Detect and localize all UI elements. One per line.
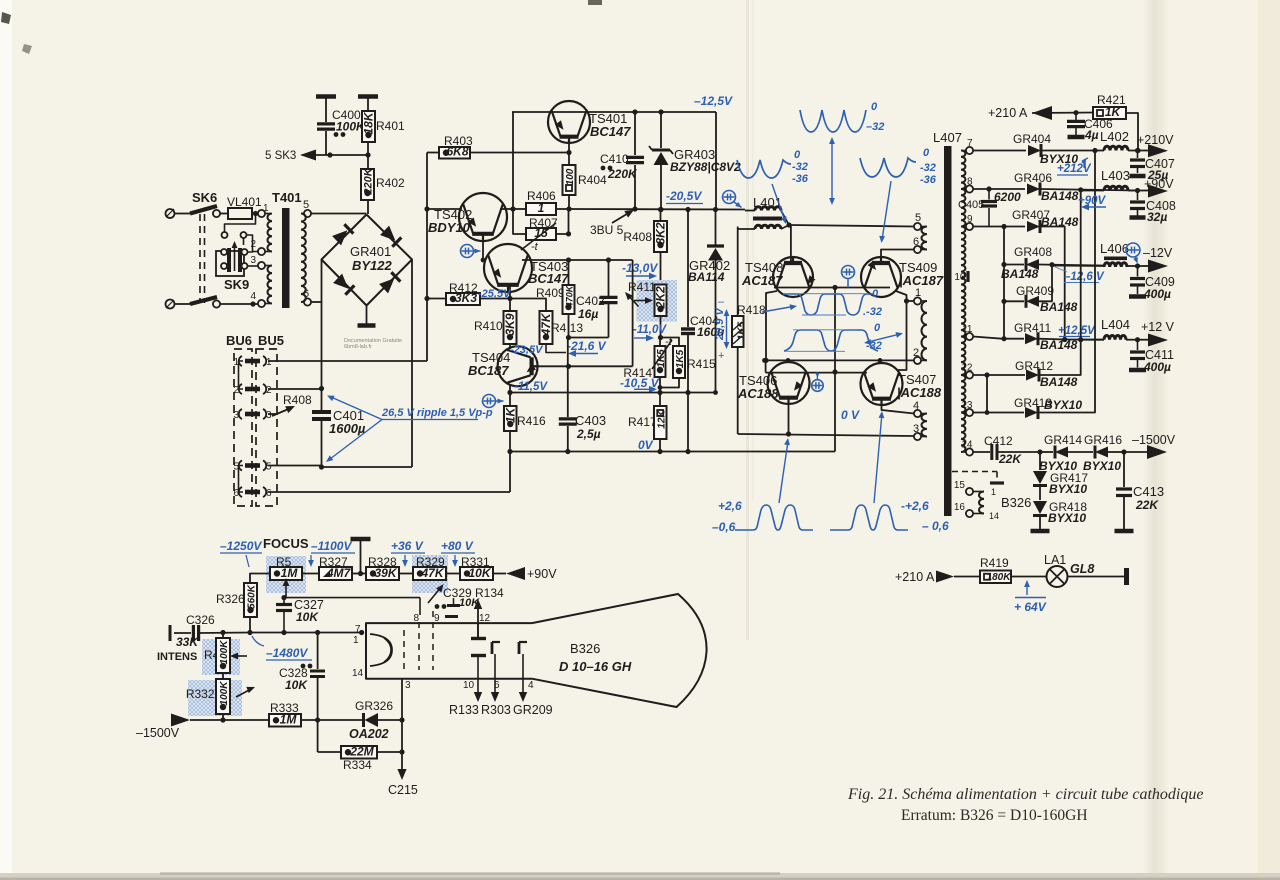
svg-text:3K9: 3K9 [503, 313, 517, 335]
terminal circle lower [166, 300, 191, 309]
svg-text:B326: B326 [570, 641, 600, 656]
capacitor C408 [1130, 191, 1176, 225]
L407 tap 16 [954, 502, 973, 517]
resistor R414 [623, 336, 672, 393]
switch SK6 upper blade [190, 190, 217, 214]
label L407 [933, 130, 962, 145]
winding 5-6 [921, 227, 927, 250]
svg-text:–: – [718, 296, 725, 308]
svg-text:-13,0V: -13,0V [622, 261, 658, 275]
svg-text:–0,6: –0,6 [712, 520, 736, 534]
svg-text:– 0,6: – 0,6 [922, 519, 949, 533]
svg-text:+90V: +90V [527, 567, 557, 581]
svg-text:BC147: BC147 [590, 124, 631, 139]
corner scan marks [1, 0, 602, 54]
svg-text:15: 15 [954, 480, 966, 491]
svg-text:C413: C413 [1133, 484, 1164, 499]
L407 tap 14 [961, 440, 973, 456]
svg-text:3: 3 [233, 410, 239, 421]
svg-text:R415: R415 [687, 357, 716, 371]
label FOCUS [263, 536, 309, 551]
T401 secondary winding [301, 214, 306, 303]
ground top middle [351, 539, 371, 576]
capacitor C403 [559, 338, 606, 452]
node VL401 right [253, 211, 258, 216]
blue -13,0V [622, 261, 658, 279]
base line TS406 TS407 [762, 358, 906, 373]
relay upper contacts [222, 214, 256, 253]
output -12V [1135, 246, 1173, 273]
node R411 bottom [658, 335, 663, 340]
wire TS404 collector [509, 344, 511, 349]
label GR401 [350, 244, 393, 273]
T401 pin4 [250, 291, 265, 307]
inductor L402 [1095, 129, 1138, 151]
intens bus [250, 632, 362, 634]
potentiometer R5 [270, 555, 302, 592]
svg-text:5 SK3: 5 SK3 [265, 150, 296, 162]
svg-text:–1100V: –1100V [311, 539, 352, 553]
inductor L401 [738, 195, 789, 229]
diode GR404 [1013, 132, 1095, 166]
capacitor C405 [958, 189, 1021, 227]
wire R334 branch left [317, 720, 319, 752]
svg-text:BZY88|C8V2: BZY88|C8V2 [670, 160, 741, 174]
wire tap5 line [786, 222, 914, 227]
transistor TS404 [498, 346, 538, 386]
svg-text:+ 64V: + 64V [1014, 600, 1047, 614]
label TS404 [468, 350, 510, 378]
diode GR411 [1004, 321, 1104, 352]
transformer L407 core [944, 146, 952, 516]
svg-text:BA148: BA148 [1041, 189, 1079, 203]
svg-text:GR406: GR406 [1014, 171, 1052, 185]
svg-text:400µ: 400µ [1143, 287, 1171, 301]
svg-text:INTENS: INTENS [157, 651, 197, 663]
T401 primary winding lower [265, 266, 272, 304]
svg-text:R334: R334 [343, 758, 372, 772]
svg-text:1: 1 [915, 287, 921, 299]
node R333 right [315, 717, 320, 722]
transistor TS406 [768, 362, 810, 404]
wire to R333 [223, 719, 270, 721]
svg-text:3BU 5: 3BU 5 [590, 223, 624, 237]
svg-text:32µ: 32µ [1147, 210, 1167, 224]
svg-text:6: 6 [913, 236, 919, 248]
svg-text:BYX10: BYX10 [1044, 398, 1082, 412]
bridge GR401 outline [322, 215, 413, 306]
blue -20,5V [666, 189, 703, 204]
svg-text:BU6: BU6 [226, 333, 252, 348]
svg-text:1: 1 [991, 487, 996, 497]
svg-text:C412: C412 [984, 434, 1013, 448]
CRT pin9 label [434, 613, 440, 624]
zener GR403 [649, 112, 673, 212]
potentiometer R329 [413, 555, 460, 580]
svg-text:GR416: GR416 [1084, 433, 1122, 447]
diode GR412 [1015, 191, 1081, 390]
svg-text:0: 0 [871, 101, 878, 113]
svg-text:0 V: 0 V [841, 408, 860, 422]
blue -1250V [220, 539, 262, 567]
svg-text:|AC188: |AC188 [897, 385, 942, 400]
wire TS404 emitter [507, 384, 512, 395]
CRT electrode 10 [463, 656, 486, 692]
capacitor C409 [1129, 266, 1175, 301]
meas point TS408-409 [842, 266, 855, 288]
bus 0V [507, 449, 835, 454]
svg-text:+2,6: +2,6 [718, 499, 742, 513]
switch SK6 lower blade [190, 297, 217, 304]
blue +12,5V [1058, 325, 1096, 337]
svg-text:R404: R404 [578, 173, 607, 187]
blue -11,0V [633, 324, 667, 341]
blue arrow left crest [779, 438, 790, 503]
blue crest wave right [830, 499, 929, 530]
svg-text:-32: -32 [792, 161, 808, 173]
node intens bus [220, 630, 364, 635]
svg-text:3: 3 [250, 255, 256, 266]
doc watermark [344, 338, 402, 350]
CRT pin7 pin1 labels [352, 624, 364, 679]
blue +36V [391, 539, 425, 567]
svg-text:GR404: GR404 [1013, 132, 1051, 146]
wire pin4 column [252, 252, 255, 304]
heater winding B326 [973, 487, 1031, 521]
svg-text:R409: R409 [536, 286, 565, 300]
wire C401 to pin5 net [322, 466, 413, 468]
resistor R402 [361, 155, 405, 214]
svg-text:–1500V: –1500V [136, 726, 180, 740]
transformer T401 core [282, 208, 290, 308]
svg-text:100K: 100K [219, 681, 230, 706]
svg-text:2: 2 [913, 347, 919, 359]
resistor R417 [628, 390, 667, 452]
wire base column up [632, 260, 634, 366]
svg-text:+80 V: +80 V [441, 539, 474, 553]
hatch R5 [266, 556, 306, 593]
svg-text:16: 16 [954, 502, 966, 513]
wire BU5 pin5 [268, 466, 322, 468]
svg-text:–1500V: –1500V [1132, 433, 1176, 447]
blue double arrow W1 [829, 137, 835, 205]
svg-text:1K5: 1K5 [737, 321, 748, 340]
wire tap5 to bridge [311, 213, 367, 215]
winding 3-4 [921, 414, 927, 437]
svg-text:2: 2 [250, 239, 256, 250]
blue 20,9V annotation [714, 296, 729, 362]
CRT grid dashed 2 [418, 622, 420, 670]
svg-text:GR408: GR408 [1014, 245, 1052, 259]
svg-text:22K: 22K [1135, 498, 1159, 512]
capacitor C407 [1130, 151, 1175, 183]
BU6 link pins 1-2 [239, 361, 244, 389]
svg-text:1: 1 [263, 203, 269, 214]
diode GR407 [1012, 208, 1079, 340]
svg-text:9: 9 [434, 613, 440, 624]
svg-text:FOCUS: FOCUS [263, 536, 309, 551]
label TS403 [528, 259, 569, 286]
resistor R413 [510, 299, 583, 353]
capacitor C410 [600, 112, 644, 212]
blue -10,5V [620, 376, 660, 393]
line B collectors [763, 358, 906, 363]
svg-text:4: 4 [528, 680, 534, 691]
wire tap7 line [973, 150, 1026, 152]
vertical TS401 base column [512, 112, 514, 209]
node R404 bus [566, 206, 571, 211]
svg-text:10K: 10K [285, 678, 308, 692]
svg-text:SK6: SK6 [192, 190, 217, 205]
output +12V [1135, 320, 1175, 347]
blue 0V left [638, 438, 654, 452]
transistor TS403 [484, 244, 532, 292]
arrow +210A top [988, 106, 1095, 120]
connector BU5 box [256, 349, 277, 506]
blue wave B [784, 322, 882, 352]
resistor R326 [216, 583, 258, 633]
label INTENS [157, 651, 197, 663]
svg-text:8: 8 [413, 613, 419, 624]
blue -21,6V [567, 339, 607, 357]
svg-text:VL401: VL401 [227, 195, 262, 209]
blue waveform W2 [737, 149, 809, 185]
svg-text:.-32: .-32 [863, 306, 882, 318]
svg-text:OA202: OA202 [349, 727, 389, 741]
svg-text:8: 8 [967, 177, 973, 188]
svg-text:R402: R402 [376, 176, 405, 190]
blue +90V note [1078, 195, 1107, 210]
hatch R411 [637, 280, 678, 322]
svg-text:+210 A: +210 A [895, 570, 935, 584]
arrow to R408 label [272, 393, 312, 416]
T401 pin5 [303, 199, 311, 217]
arrow C215 [388, 769, 418, 797]
capacitor C412 [984, 434, 1043, 466]
svg-text:10K: 10K [296, 610, 319, 624]
node R332 bottom [220, 717, 225, 722]
svg-text:R326: R326 [216, 592, 245, 606]
relay SK9 box [216, 251, 249, 292]
blue -0,6 left [922, 519, 949, 533]
transistor TS401 [548, 101, 590, 143]
svg-text:12: 12 [479, 613, 491, 624]
svg-text:4µ: 4µ [1084, 128, 1099, 142]
svg-text:GR411: GR411 [1014, 321, 1051, 335]
bridge diode top-left [332, 224, 353, 245]
arrow 3BU5 [590, 210, 634, 237]
svg-text:-10,5 V: -10,5 V [620, 376, 660, 390]
svg-text:R303: R303 [481, 703, 511, 717]
CRT neck outline [366, 623, 532, 679]
bridge diode top-right [380, 226, 401, 247]
svg-text:BY122: BY122 [352, 258, 393, 273]
arrow +210A bottom [895, 570, 980, 584]
fuse VL401 [220, 195, 262, 219]
svg-text:7: 7 [967, 138, 973, 149]
CRT electrode 6 [492, 642, 500, 691]
L407 tap 8 [961, 177, 973, 193]
T407 tap5 circle [914, 212, 921, 230]
svg-text:BYX10: BYX10 [1083, 459, 1121, 473]
wire base column to 0V [832, 288, 837, 452]
resistor R327 [302, 555, 366, 580]
svg-text:C410: C410 [600, 152, 629, 166]
svg-text:0V: 0V [638, 438, 654, 452]
transistor TS407 [861, 363, 903, 405]
resistor R411 [628, 280, 668, 338]
diode GR326 [318, 699, 402, 741]
svg-text:BA148: BA148 [1001, 267, 1039, 281]
contact circle lower [213, 300, 220, 307]
CRT electrode 12 [471, 613, 491, 639]
svg-text:Fig. 21. Schéma alimentation: Fig. 21. Schéma alimentation + circuit t… [847, 786, 1203, 803]
wire +90 column [1080, 191, 1082, 340]
svg-text:GR414: GR414 [1044, 433, 1082, 447]
svg-text:470K: 470K [565, 284, 575, 308]
blue arrow W3 down [879, 181, 891, 243]
diode GR418 [1031, 486, 1088, 531]
paper crease [746, 0, 754, 640]
capacitor C404 [681, 210, 725, 452]
output +210V [1135, 133, 1174, 157]
wire TS407 emitter to tap4 [882, 405, 915, 414]
wire tap12 column [986, 375, 988, 413]
svg-text:AC187: AC187 [741, 273, 783, 288]
diode GR402 [707, 210, 724, 393]
tap3 circle [913, 423, 921, 440]
arrow R134 [474, 599, 482, 637]
svg-text:16µ: 16µ [578, 307, 598, 321]
transformer T401 label [272, 190, 302, 205]
resistor R334 [318, 745, 402, 773]
wire TS402 emitter stem [482, 241, 484, 260]
ground above R401 [358, 97, 378, 112]
svg-text:39K: 39K [374, 566, 397, 580]
capacitor C411 [1129, 340, 1174, 374]
svg-text:R416: R416 [517, 414, 546, 428]
L407 tap 9 [961, 214, 973, 230]
arrow -1500V left [136, 714, 223, 741]
terminal circle upper [166, 209, 191, 218]
blue -1480V [252, 636, 312, 660]
wire bridge top to R402 [367, 213, 369, 216]
connector BU6 box [234, 349, 252, 506]
svg-text:100: 100 [565, 168, 576, 185]
capacitor C329 [435, 597, 481, 617]
base line TS408 TS409 [774, 285, 890, 290]
svg-text:1600µ: 1600µ [329, 421, 366, 436]
svg-text:+: + [718, 350, 724, 362]
wire TS401 top line right [635, 109, 716, 114]
wire pin10 down [449, 679, 482, 717]
svg-text:14: 14 [352, 668, 364, 679]
svg-text:+210 A: +210 A [988, 106, 1028, 120]
blue arrow wave B [864, 332, 903, 345]
resistor R416 [503, 393, 546, 452]
svg-text:1K: 1K [503, 406, 517, 423]
blue -12,6V [1053, 266, 1105, 283]
wire R5 wiper to C327 [285, 592, 287, 598]
wire SK9 to pin3 [248, 265, 259, 267]
resistor R408 8K2 [623, 207, 667, 284]
connector pin 5 [233, 461, 272, 473]
lamp LA1 [1044, 553, 1094, 587]
wire BU5 pin6 [268, 452, 510, 493]
CRT funnel [532, 594, 707, 707]
node TS403 base join [481, 258, 486, 263]
wire tap8 line [973, 186, 1025, 191]
svg-text:AC188: AC188 [737, 386, 779, 401]
node TS403 emitter [507, 296, 512, 301]
svg-text:R418: R418 [737, 303, 766, 317]
label TS406 [737, 373, 779, 401]
blue arrow right crest [874, 411, 884, 503]
svg-text:-11,5V: -11,5V [514, 381, 548, 393]
svg-text:-36: -36 [792, 173, 809, 185]
svg-text:400µ: 400µ [1143, 360, 1171, 374]
node C401 top [319, 386, 324, 391]
resistor R401 [362, 111, 406, 155]
L407 tap 12 [961, 363, 973, 379]
svg-text:22M: 22M [349, 745, 374, 759]
wire tap13 line [973, 410, 1024, 415]
svg-text:BDY10: BDY10 [428, 220, 471, 235]
svg-text:6200: 6200 [994, 190, 1021, 204]
resistor R410 [474, 299, 517, 345]
svg-text:100K: 100K [219, 640, 230, 665]
svg-text:BYX10: BYX10 [1048, 511, 1086, 525]
wire lower to pin4 [220, 301, 258, 306]
blue 0V mid [841, 408, 860, 422]
svg-text:0: 0 [794, 149, 801, 161]
wire tap9 line [973, 224, 1025, 229]
svg-text:0: 0 [874, 322, 881, 334]
svg-text:R332: R332 [186, 687, 215, 701]
inductor L403 [1082, 168, 1138, 191]
wire BU5 pin3 stub [268, 413, 278, 415]
potentiometer R4 100K [204, 633, 250, 680]
T401 pin3 [250, 255, 265, 269]
svg-text:6bm8-lab.fr: 6bm8-lab.fr [344, 344, 372, 350]
label BU5 [258, 333, 284, 348]
bridge ground [358, 306, 376, 326]
wire R4 top [222, 632, 224, 638]
svg-text:–12V: –12V [1143, 246, 1173, 260]
meas point L406 [1126, 243, 1140, 264]
svg-text:5: 5 [915, 212, 921, 224]
svg-text:1K5: 1K5 [656, 349, 667, 368]
wire tap14 line [973, 451, 990, 453]
diode GR417 [1033, 452, 1088, 496]
transistor TS409 [861, 257, 901, 297]
potentiometer R332 [186, 679, 255, 720]
svg-text:2: 2 [266, 385, 272, 396]
svg-text:BA148: BA148 [1040, 375, 1078, 389]
ground above C400 [316, 97, 336, 123]
blue -11,5V [514, 381, 548, 393]
capacitor C327 [276, 595, 324, 633]
BU6 link pins 5-6 [239, 466, 244, 493]
T407 tap6 circle [913, 236, 921, 253]
resistor R407 [513, 209, 571, 253]
svg-text:C405: C405 [958, 199, 984, 211]
caption erratum [901, 807, 1088, 824]
blue -12,5V top [694, 94, 733, 108]
T401 pin1 [258, 203, 269, 217]
svg-text:1K5: 1K5 [675, 349, 686, 368]
capacitor C326 [170, 613, 250, 649]
